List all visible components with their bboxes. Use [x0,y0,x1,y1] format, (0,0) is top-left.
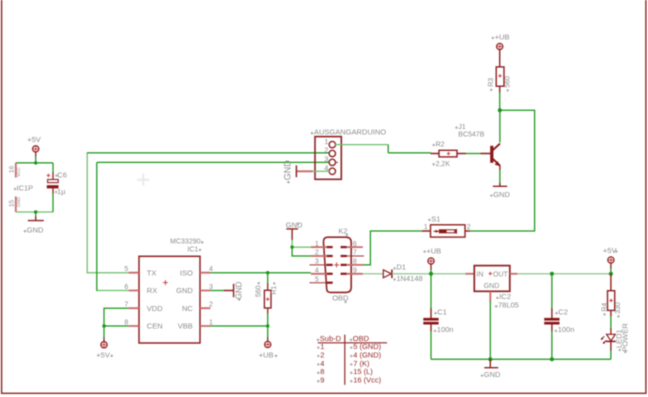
svg-text:3: 3 [324,155,328,164]
ground (connector pin 4) [283,160,313,184]
junction [498,108,502,112]
wire [610,350,612,359]
svg-text:GND: GND [484,370,501,379]
svg-text:MC33290: MC33290 [170,239,200,246]
svg-text:2,2K: 2,2K [436,161,451,168]
svg-text:+5V: +5V [96,350,110,359]
svg-text:IC1P: IC1P [17,183,34,192]
svg-text:S1: S1 [431,214,440,223]
wire [610,316,612,329]
svg-text:5: 5 [315,276,319,283]
svg-text:8: 8 [353,259,357,266]
svg-text:15: 15 [9,200,16,208]
svg-text:J1: J1 [458,124,466,131]
svg-text:NC: NC [182,304,193,313]
svg-text:BC547B: BC547B [458,131,484,138]
connector K2 OBD [310,226,365,303]
svg-text:OUT: OUT [493,271,509,278]
junction [609,272,613,276]
svg-text:CEN: CEN [147,322,163,331]
junction [34,210,37,213]
svg-text:GND: GND [493,190,510,199]
IC power pins IC1P [9,163,33,212]
IC1 MC33290 [124,239,213,343]
wire S1 to K2 pin8 [363,231,422,265]
svg-text:6: 6 [353,241,357,248]
svg-text:C6: C6 [57,170,67,179]
svg-text:VDD: VDD [147,304,163,313]
svg-text:7: 7 [353,250,357,257]
svg-text:5: 5 [124,266,128,273]
wire TX net [87,152,128,272]
supply +UB (above D1 junction) [423,246,441,269]
junction [266,324,269,327]
svg-text:+UB: +UB [426,246,441,255]
svg-text:GND: GND [286,220,303,229]
sheet center cross [137,174,149,186]
svg-text:R1: R1 [271,286,278,295]
supply +5V (right) [603,246,618,269]
svg-text:GND: GND [27,226,44,235]
capacitor C6 [47,163,67,212]
wire [430,269,432,274]
svg-text:IC1: IC1 [187,246,198,253]
svg-text:GND: GND [484,283,500,290]
svg-text:8: 8 [124,319,128,326]
wire [466,153,482,155]
resistor R4 [601,274,622,318]
wire [292,240,311,247]
svg-text:1µ: 1µ [57,187,66,196]
svg-text:1: 1 [324,137,328,146]
svg-text:1: 1 [209,319,213,326]
svg-text:OBD: OBD [332,294,349,303]
svg-text:100n: 100n [437,325,454,334]
wire [16,156,53,163]
svg-text:1N4148: 1N4148 [396,274,422,283]
svg-text:IN: IN [476,271,483,278]
ground (below rail) [481,359,501,379]
svg-text:RX: RX [147,286,157,295]
svg-text:R2: R2 [436,142,445,149]
pin mapping table [317,334,387,385]
junction [266,271,269,274]
svg-text:4: 4 [209,266,213,273]
supply +UB (top) [491,33,509,50]
resistor R1 [256,273,279,326]
ground (IC1 pin 3) [210,281,243,301]
svg-text:+UB: +UB [495,33,510,42]
svg-text:+UB: +UB [259,350,274,359]
junction [488,357,492,361]
svg-text:C1: C1 [437,308,447,317]
junction [34,161,37,164]
svg-text:ISO: ISO [180,268,193,277]
junction [550,357,554,361]
wire VDD/CEN to +5V [104,308,129,338]
diode D1 1N4148 [383,263,422,283]
svg-text:6: 6 [124,284,128,291]
wire VBB net [210,326,267,338]
svg-text:+5V: +5V [27,135,41,144]
svg-text:9: 9 [320,376,324,385]
wire collector branch to S1 [470,110,535,231]
svg-text:1: 1 [424,224,428,231]
svg-text:TX: TX [147,268,157,277]
wire [292,247,311,256]
LED1 POWER [601,323,629,354]
svg-text:D1: D1 [396,263,406,272]
voltage regulator IC2 78L05 [466,266,519,310]
svg-text:GND: GND [283,160,293,181]
resistor R2 [431,142,466,168]
switch S1 [422,214,471,237]
ground (K2 pins 1,2) [286,220,303,240]
svg-text:330: 330 [615,302,622,314]
wire ground rail [431,358,611,360]
wire [388,145,431,153]
svg-text:2: 2 [209,302,213,309]
svg-text:2: 2 [315,250,319,257]
wire K2 pin9 to D1 [363,273,384,275]
svg-text:GND: GND [176,286,193,295]
svg-text:3: 3 [315,259,319,266]
svg-text:K2: K2 [338,226,347,235]
svg-text:9: 9 [353,268,357,275]
wire ISO net [210,272,310,274]
svg-text:VCC: VCC [16,167,21,177]
supply +UB (below R1) [259,337,278,359]
ground (IC1P) [24,212,44,235]
svg-text:7: 7 [124,302,128,309]
wire IC2 GND pin down [489,301,491,359]
supply +5V (below IC1) [96,337,113,359]
resistor R3 [488,50,512,93]
supply +5V (top-left) [27,135,41,156]
svg-text:+5V: +5V [603,246,617,255]
wire IC2 out to +5V [517,273,611,275]
capacitor C1 [423,274,453,359]
wire connector pin1 to R2 [335,144,388,146]
wire D1 to IC2 [392,273,466,275]
transistor J1 BC547B [455,124,500,170]
svg-text:560: 560 [256,285,263,297]
wire [499,110,501,142]
svg-text:4: 4 [315,268,319,275]
wire [499,170,501,184]
svg-text:GND: GND [16,196,21,207]
junction [429,272,433,276]
svg-text:1: 1 [315,241,319,248]
svg-text:100n: 100n [558,325,575,334]
svg-text:16: 16 [9,166,16,174]
svg-text:R4: R4 [601,303,608,312]
connector AUSGANGARDUINO [311,127,387,179]
svg-text:560: 560 [505,76,512,88]
junction [290,245,293,248]
svg-text:POWER: POWER [620,323,629,352]
wire [610,269,612,274]
wire [16,211,53,213]
svg-text:16 (Vcc): 16 (Vcc) [353,376,381,385]
svg-text:GND: GND [234,281,243,299]
svg-text:R3: R3 [488,78,495,87]
wire RX net [97,290,129,292]
junction [550,272,554,276]
svg-text:2: 2 [324,146,328,155]
svg-text:C2: C2 [558,308,568,317]
svg-text:AUSGANGARDUINO: AUSGANGARDUINO [314,127,386,136]
svg-text:3: 3 [209,284,213,291]
svg-text:78L05: 78L05 [498,301,519,310]
ground (emitter) [490,183,510,199]
wire [313,170,330,172]
svg-text:VBB: VBB [178,322,193,331]
svg-text:2: 2 [467,224,471,231]
capacitor C2 [544,274,574,359]
junction [102,324,105,327]
wire [499,92,501,110]
